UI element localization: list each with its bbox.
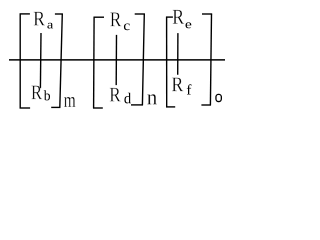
label Rf: [172, 78, 192, 95]
bracket [ of unit m: [20, 14, 31, 109]
label Ra: [34, 12, 54, 29]
label Rc: [110, 13, 130, 31]
bond to Ra: [39, 33, 42, 88]
bracket ] of unit o: [201, 14, 212, 106]
subscript n: [147, 94, 157, 104]
label Re: [173, 10, 192, 28]
label Rd: [110, 88, 131, 104]
bond to Re: [177, 33, 179, 75]
bracket ] of unit m: [51, 14, 63, 108]
bond to Rc: [115, 35, 117, 85]
bracket [ of unit o: [166, 17, 175, 108]
label Rb: [31, 86, 50, 101]
subscript m: [64, 97, 76, 107]
subscript o: [216, 94, 221, 101]
backbone wire: [9, 59, 225, 61]
bracket ] of unit n: [131, 14, 145, 106]
bracket [ of unit n: [93, 17, 104, 108]
